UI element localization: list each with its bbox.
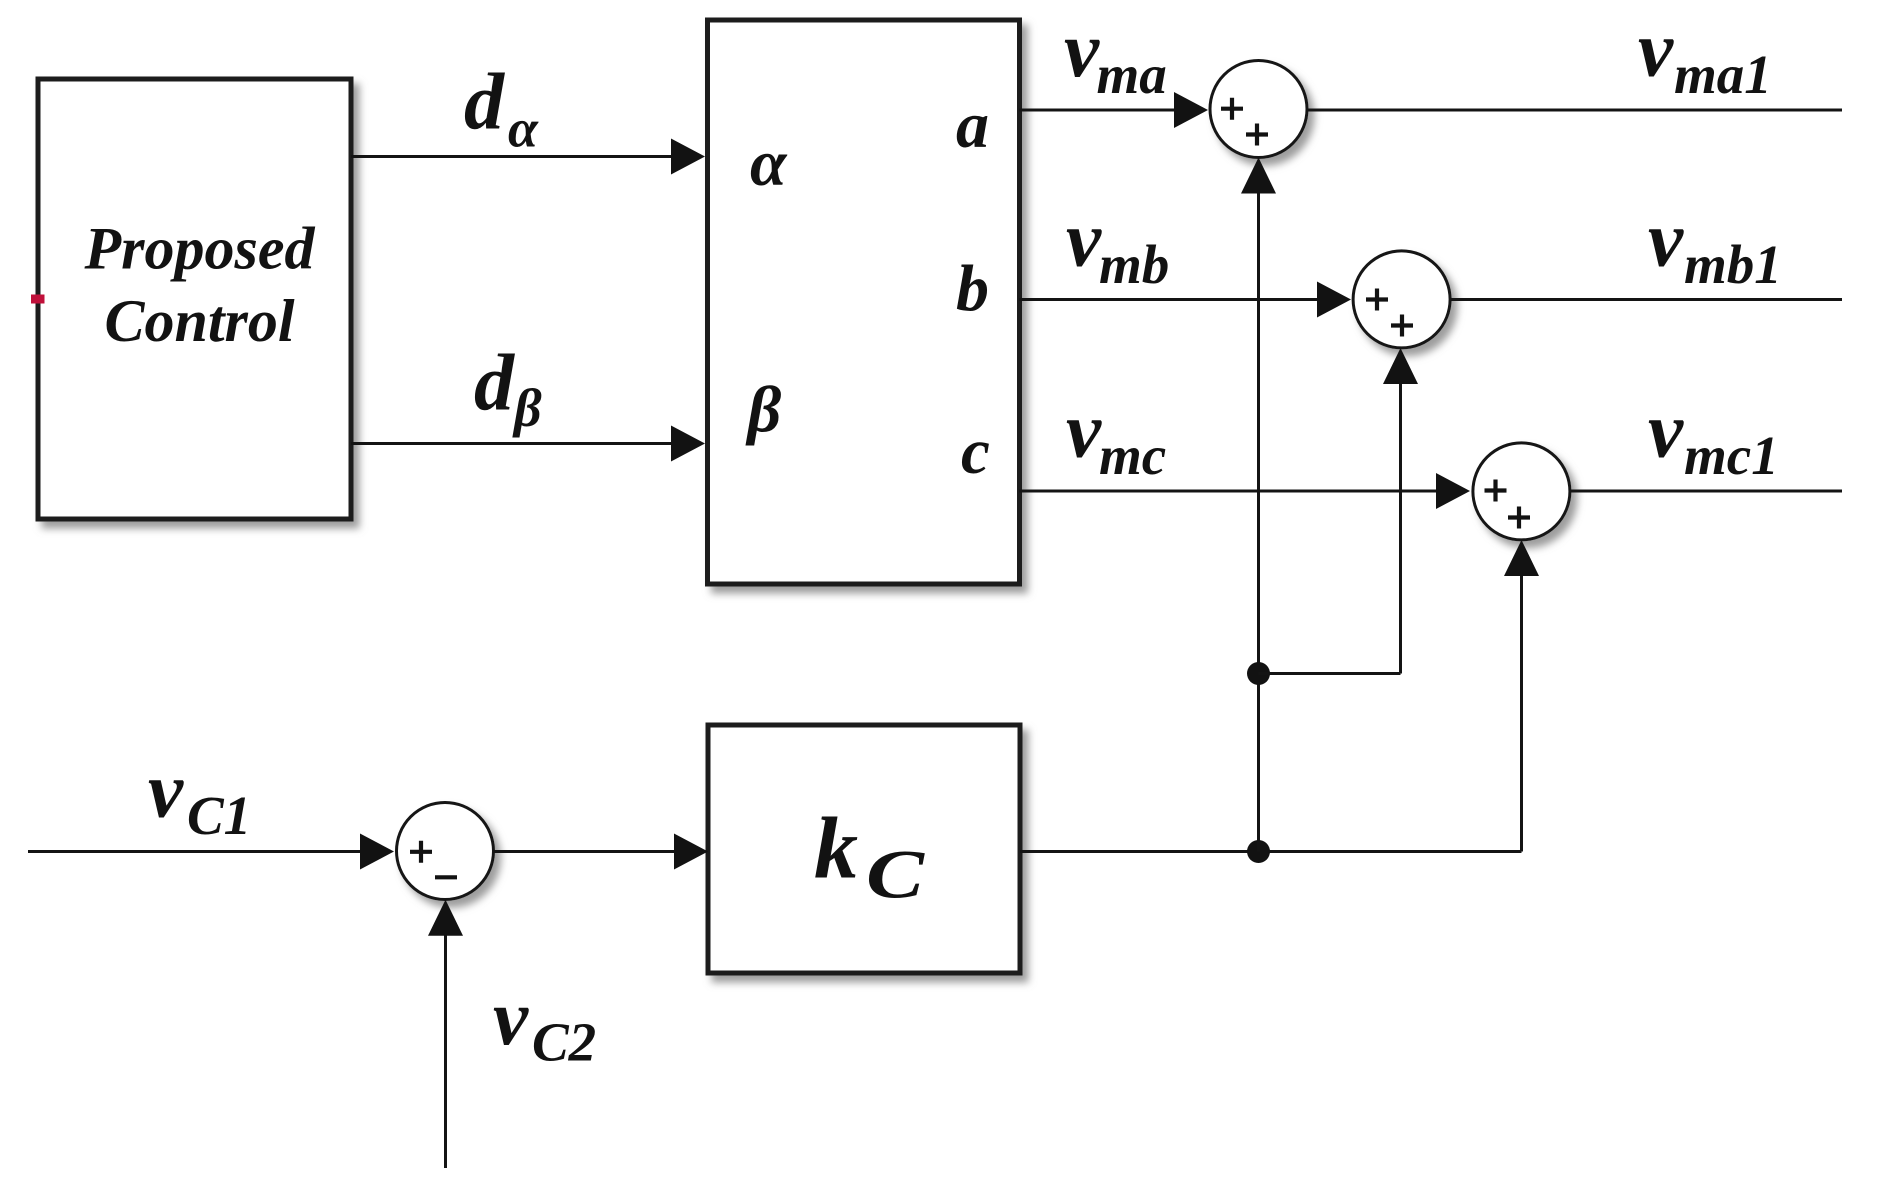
svg-text:mc1: mc1 [1684,425,1779,486]
label v_C1 [148,748,251,846]
svg-text:β: β [745,374,782,447]
wire S1 to right edge v_ma1 [1307,109,1842,112]
svg-text:α: α [508,99,539,159]
block alpha-beta to abc transform [708,20,1020,584]
svg-text:v: v [1066,388,1102,475]
svg-text:b: b [956,252,989,325]
label v_mc1 [1648,388,1779,487]
svg-text:Proposed: Proposed [84,216,316,282]
block kC gain [708,725,1020,973]
svg-text:a: a [956,89,989,162]
label v_ma1 [1638,7,1772,106]
wire S4 to kC block [494,834,709,870]
svg-text:α: α [750,127,788,200]
summing junction S4 [397,803,494,900]
svg-text:k: k [814,801,858,898]
svg-text:C1: C1 [187,785,251,846]
wire branch horizontal J2 to S2 column [1259,672,1401,675]
summing junction S3 [1473,443,1570,540]
svg-text:ma1: ma1 [1674,44,1772,105]
label v_ma [1064,7,1167,105]
svg-text:c: c [961,416,990,488]
summing junction S2 [1353,251,1450,348]
svg-text:v: v [1064,7,1100,94]
block Proposed Control [38,79,351,519]
wire branch vertical up into S2 [1383,348,1418,674]
wire feedback vertical to S1 [1241,158,1276,852]
wire d_alpha [351,139,705,175]
svg-text:v: v [148,748,184,835]
svg-text:mb1: mb1 [1684,234,1782,295]
svg-text:v: v [1638,7,1674,94]
svg-text:mc: mc [1099,425,1166,486]
wire kC output up into S3 [1504,540,1539,852]
wire b output to summing junction S2 [1019,282,1351,318]
svg-text:Control: Control [104,288,294,354]
svg-text:mb: mb [1099,234,1169,295]
wire v_C2 input from bottom to S4 [428,900,463,1168]
svg-text:ma: ma [1097,44,1167,105]
label d_alpha [464,59,539,159]
svg-text:v: v [1066,197,1102,284]
wire S3 to right edge v_mc1 [1570,490,1842,493]
red tick artifact [31,295,45,304]
wire d_beta [351,426,705,462]
junction dot J2 [1247,662,1270,685]
svg-text:C2: C2 [532,1012,596,1073]
wire c output to summing junction S3 [1019,473,1470,509]
svg-text:β: β [512,378,542,438]
summing junction S1 [1210,61,1307,158]
label v_mc [1066,388,1166,487]
junction dot J1 [1247,840,1270,863]
svg-text:v: v [1648,388,1684,475]
svg-text:d: d [464,59,505,147]
wire S2 to right edge v_mb1 [1450,298,1842,301]
svg-text:v: v [493,975,529,1062]
svg-text:C: C [866,837,925,913]
label v_C2 [493,975,596,1073]
wire v_C1 input to summing junction S4 [28,834,394,870]
wire kC output horizontal [1020,850,1522,853]
wire a output to summing junction S1 [1019,92,1208,128]
svg-text:d: d [474,340,515,428]
label v_mb1 [1648,197,1782,296]
label v_mb [1066,197,1169,296]
label d_beta [474,340,542,439]
svg-text:v: v [1648,197,1684,284]
